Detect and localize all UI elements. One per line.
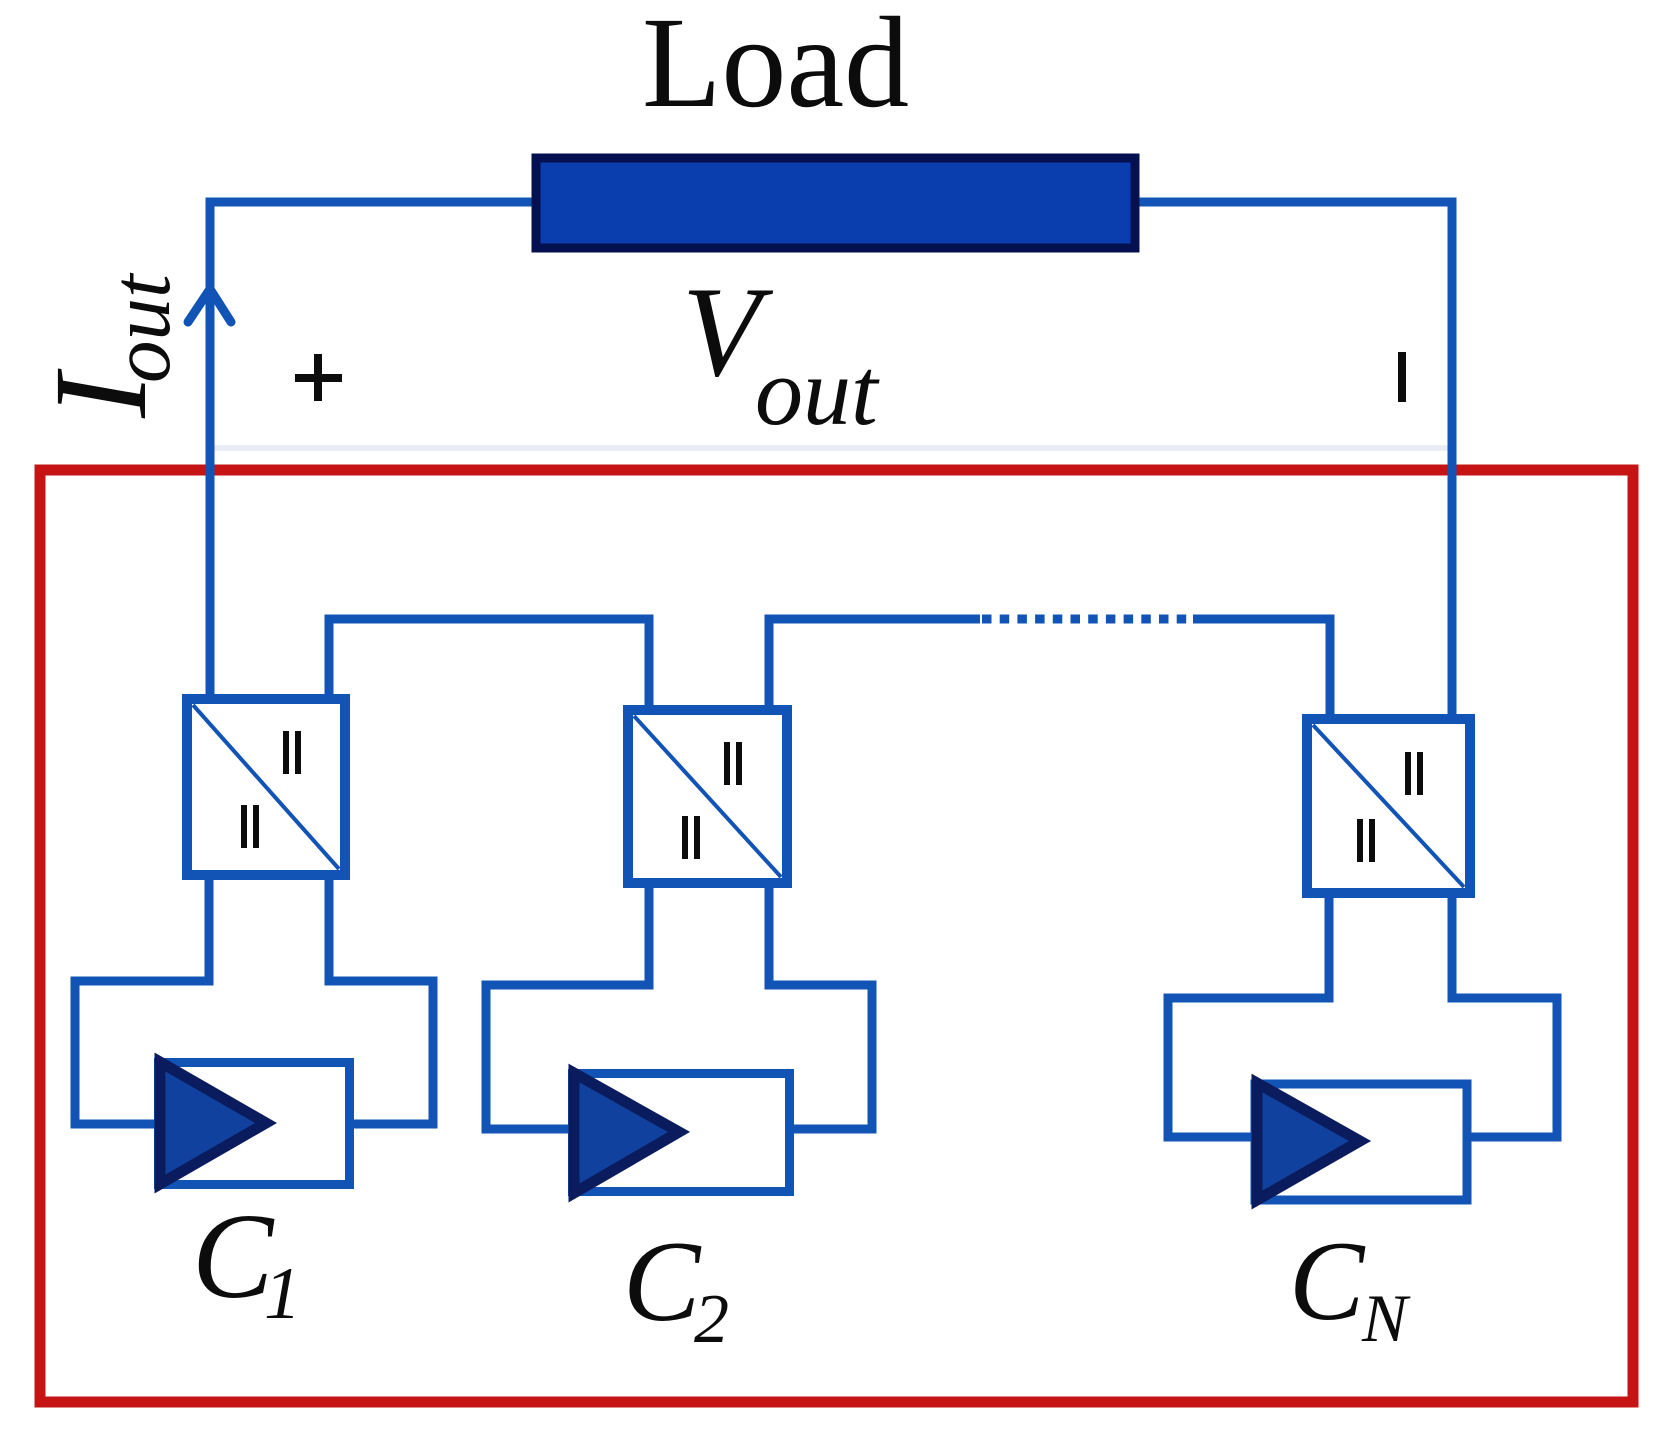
converter-system boundary (red box) (40, 470, 1633, 1402)
converter U1 DC marks (input side) (244, 805, 256, 848)
cell C1 triangle symbol (160, 1062, 266, 1184)
svg-text:1: 1 (264, 1253, 301, 1335)
cell CN triangle symbol (1257, 1083, 1360, 1200)
converter UN (DC/DC) (1307, 719, 1470, 893)
resistor RL (Load) (536, 158, 1135, 248)
converter UN DC marks (input side) (1360, 819, 1372, 862)
svg-text:N: N (1361, 1280, 1411, 1356)
terminal - (negative output, rotated minus) (1398, 352, 1406, 402)
wire: converter U1 input left leg to cell C1 positive terminal (75, 875, 209, 1124)
node Vout sense line (faint) between + and - terminals (212, 445, 1452, 451)
converter UN body (1307, 719, 1470, 893)
converter U1 body (187, 699, 345, 875)
cell C2 body (573, 1074, 790, 1192)
svg-text:Load: Load (642, 0, 909, 135)
terminal + (positive output) (295, 354, 342, 401)
wire: series bus into converter UN input (1193, 619, 1330, 719)
converter UN DC marks (output side) (1408, 752, 1420, 795)
svg-text:C: C (1289, 1219, 1366, 1344)
arrowhead: Iout current direction (188, 289, 231, 322)
converter U2 DC marks (output side) (727, 742, 739, 785)
label Iout (rotated 90 CCW) (26, 272, 188, 419)
svg-text:out: out (755, 338, 880, 445)
svg-text:out: out (94, 272, 188, 383)
wire: converter U1 input right leg to cell C1 negative terminal (329, 875, 433, 1124)
converter U1 (DC/DC) (187, 699, 345, 875)
converter U2 body (628, 710, 787, 883)
converter U2 diagonal (634, 716, 781, 877)
wire: series bus from converter U2 output (solid part) (769, 619, 980, 710)
wire: load right terminal down to converter UN (node -) (1135, 202, 1452, 719)
wire: node + (Iout) from converter U1 up and across to load left terminal (210, 202, 536, 699)
converter U1 DC marks (output side) (286, 731, 298, 774)
wire: converter U2 input left leg to cell C2 positive terminal (486, 882, 649, 1129)
wire: series bus continuation (dashed, omitted converters) (982, 615, 1196, 624)
cell C2 triangle symbol (574, 1073, 679, 1193)
wire: series bus converter U1 output to converter U2 input (329, 619, 649, 710)
converter U1 diagonal (193, 705, 339, 869)
converter U2 (DC/DC) (628, 710, 787, 883)
cell CN body (1255, 1084, 1467, 1200)
svg-text:C: C (623, 1218, 702, 1346)
converter UN diagonal (1313, 725, 1464, 887)
wire: converter UN input right leg to cell CN negative terminal (1452, 893, 1557, 1137)
converter U2 DC marks (input side) (685, 816, 697, 859)
wire: converter U2 input right leg to cell C2 negative terminal (769, 882, 872, 1129)
svg-text:2: 2 (694, 1281, 729, 1358)
wire: converter UN input left leg to cell CN positive terminal (1168, 893, 1329, 1137)
cell C1 body (159, 1063, 350, 1185)
svg-text:C: C (192, 1189, 275, 1324)
